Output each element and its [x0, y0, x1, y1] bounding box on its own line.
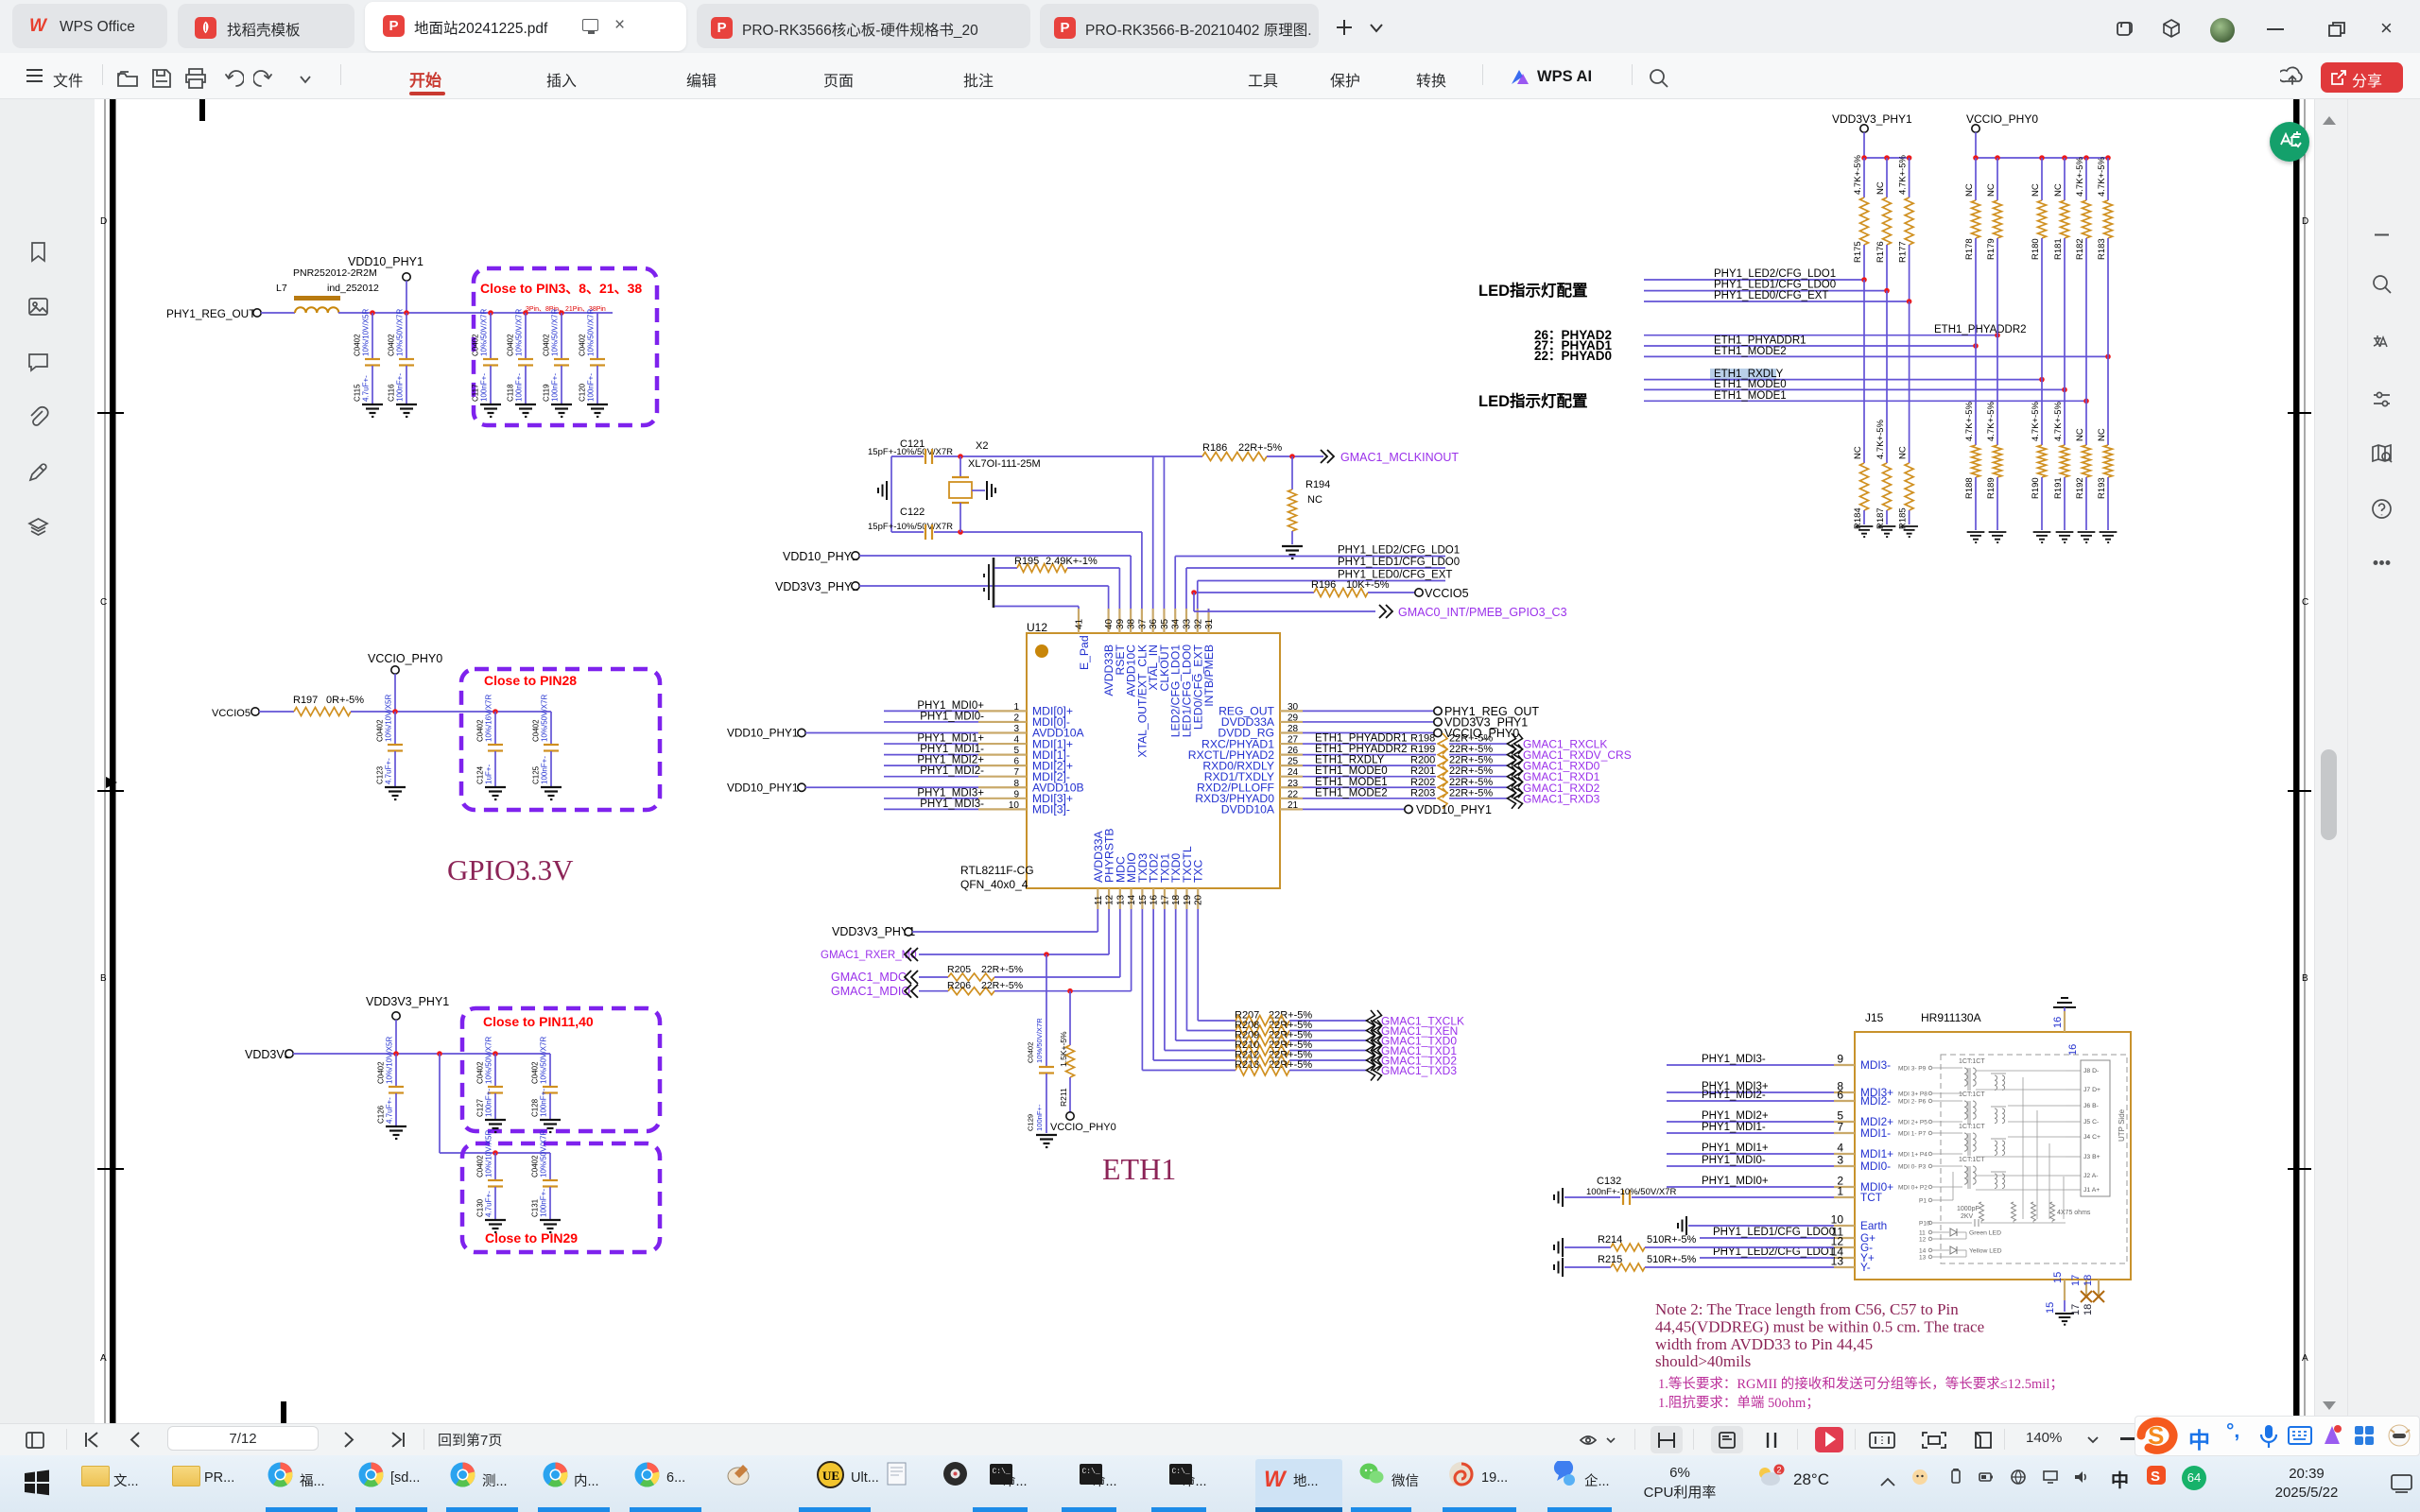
svg-text:10%/10V/X5R: 10%/10V/X5R [485, 1130, 493, 1177]
svg-text:should>40mils: should>40mils [1655, 1352, 1751, 1370]
svg-text:width from AVDD33 to Pin 44,45: width from AVDD33 to Pin 44,45 [1655, 1335, 1873, 1353]
svg-text:6: 6 [1837, 1089, 1843, 1102]
svg-text:NC: NC [1898, 446, 1909, 459]
svg-text:C0402: C0402 [354, 334, 362, 356]
svg-text:36: 36 [1149, 618, 1159, 629]
svg-text:NC: NC [2053, 183, 2064, 197]
svg-text:C0402: C0402 [376, 719, 385, 742]
svg-text:LED指示灯配置: LED指示灯配置 [1478, 391, 1588, 410]
svg-text:C0402: C0402 [531, 1061, 540, 1084]
svg-text:MDI2-: MDI2- [1860, 1094, 1891, 1108]
svg-text:4.7K+-5%: 4.7K+-5% [1875, 419, 1886, 459]
svg-text:100nF+-: 100nF+- [540, 1189, 548, 1217]
svg-text:R201: R201 [1410, 765, 1435, 777]
svg-text:NC: NC [1986, 183, 1996, 197]
svg-text:39: 39 [1115, 618, 1126, 629]
svg-text:R176: R176 [1875, 241, 1886, 263]
svg-text:100nF+-: 100nF+- [515, 373, 524, 402]
svg-text:Earth: Earth [1860, 1219, 1887, 1232]
svg-text:C132: C132 [1597, 1176, 1621, 1187]
svg-text:1.阻抗要求：单端 50ohm；: 1.阻抗要求：单端 50ohm； [1658, 1395, 1820, 1411]
svg-text:Green LED: Green LED [1969, 1230, 2001, 1237]
svg-text:Close to PIN29: Close to PIN29 [485, 1230, 578, 1246]
svg-text:4.7K+-5%: 4.7K+-5% [1964, 401, 1975, 441]
svg-text:PHY1_MDI0-: PHY1_MDI0- [920, 711, 984, 722]
svg-text:D: D [100, 216, 107, 227]
svg-text:MDI 3+ P8: MDI 3+ P8 [1898, 1091, 1927, 1098]
svg-text:J15: J15 [1865, 1011, 1884, 1024]
svg-text:B: B [2302, 973, 2308, 984]
svg-text:10: 10 [1009, 800, 1020, 811]
svg-text:J5 C-: J5 C- [2083, 1119, 2099, 1125]
svg-text:C0402: C0402 [579, 334, 587, 356]
svg-text:11: 11 [1094, 895, 1104, 905]
svg-text:R177: R177 [1898, 241, 1909, 263]
svg-text:D: D [2302, 216, 2308, 227]
svg-text:C125: C125 [532, 765, 541, 784]
svg-text:34: 34 [1171, 618, 1182, 629]
svg-text:ETH1_PHYADDR1: ETH1_PHYADDR1 [1315, 733, 1408, 745]
svg-text:C118: C118 [507, 384, 515, 402]
svg-text:19: 19 [1183, 894, 1193, 905]
svg-text:C128: C128 [531, 1098, 540, 1117]
svg-text:4.7K+-5%: 4.7K+-5% [2031, 401, 2041, 441]
svg-text:100nF+-: 100nF+- [541, 756, 549, 784]
svg-text:4.7K+-5%: 4.7K+-5% [2075, 156, 2085, 197]
svg-text:100nF+-: 100nF+- [551, 373, 560, 402]
svg-text:VCCIO_PHY0: VCCIO_PHY0 [1966, 112, 2038, 126]
svg-text:U12: U12 [1027, 621, 1047, 634]
svg-text:PHY1_REG_OUT: PHY1_REG_OUT [166, 307, 255, 320]
svg-text:20: 20 [1194, 894, 1204, 905]
svg-text:C: C [2302, 597, 2308, 608]
svg-text:1CT:1CT: 1CT:1CT [1959, 1124, 1985, 1130]
svg-text:PHY1_MDI0+: PHY1_MDI0+ [1702, 1176, 1769, 1187]
svg-text:4.7K+-5%: 4.7K+-5% [1898, 154, 1909, 195]
svg-text:ETH1_MODE1: ETH1_MODE1 [1315, 777, 1388, 788]
svg-text:Note 2: The Trace length from: Note 2: The Trace length from C56, C57 t… [1655, 1300, 1959, 1318]
svg-text:37: 37 [1137, 618, 1148, 629]
svg-text:R194: R194 [1305, 479, 1330, 490]
svg-text:R175: R175 [1853, 241, 1863, 263]
svg-text:VDD10_PHY1: VDD10_PHY1 [348, 255, 423, 268]
svg-text:12: 12 [1105, 894, 1115, 905]
svg-text:4.7uF+-: 4.7uF+- [362, 375, 371, 402]
svg-text:C0402: C0402 [1027, 1042, 1035, 1063]
svg-text:10%/50V/X7R: 10%/50V/X7R [587, 309, 596, 356]
svg-text:38: 38 [1127, 618, 1137, 629]
svg-text:10%/50V/X7R: 10%/50V/X7R [1035, 1018, 1044, 1063]
svg-text:R200: R200 [1410, 755, 1435, 766]
svg-text:VDD10_PHY1: VDD10_PHY1 [783, 550, 858, 563]
svg-text:10%/10V/X5R: 10%/10V/X5R [385, 695, 393, 742]
svg-text:10%/50V/X7R: 10%/50V/X7R [551, 309, 560, 356]
svg-text:MDI 1+ P4: MDI 1+ P4 [1898, 1152, 1927, 1159]
svg-text:10: 10 [1831, 1213, 1844, 1227]
svg-text:100nF+-: 100nF+- [485, 1089, 493, 1117]
svg-text:23: 23 [1288, 779, 1299, 789]
svg-text:4X75 ohms: 4X75 ohms [2057, 1210, 2091, 1216]
svg-text:ETH1_MODE2: ETH1_MODE2 [1714, 346, 1787, 357]
svg-text:VDD3V3_PHY1: VDD3V3_PHY1 [832, 925, 915, 938]
svg-text:4.7K+-5%: 4.7K+-5% [2053, 401, 2064, 441]
svg-text:C122: C122 [900, 507, 925, 518]
svg-text:ETH1_PHYADDR2: ETH1_PHYADDR2 [1934, 324, 2027, 335]
svg-text:MDI 2+ P5: MDI 2+ P5 [1898, 1120, 1927, 1126]
svg-text:100nF+-: 100nF+- [540, 1089, 548, 1117]
svg-text:J1 A+: J1 A+ [2083, 1187, 2100, 1194]
svg-text:PHY1_LED0/CFG_EXT: PHY1_LED0/CFG_EXT [1714, 290, 1828, 301]
svg-text:ETH1_MODE1: ETH1_MODE1 [1714, 390, 1787, 402]
svg-text:Y-: Y- [1860, 1261, 1871, 1274]
svg-text:GMAC0_INT/PMEB_GPIO3_C3: GMAC0_INT/PMEB_GPIO3_C3 [1398, 606, 1567, 619]
svg-text:VDD10_PHY1: VDD10_PHY1 [727, 727, 798, 740]
svg-text:0R+-5%: 0R+-5% [326, 695, 364, 706]
svg-text:C131: C131 [531, 1198, 540, 1217]
svg-text:44,45(VDDREG) must be within 0: 44,45(VDDREG) must be within 0.5 cm. The… [1655, 1317, 1984, 1335]
svg-text:R180: R180 [2031, 238, 2041, 260]
svg-text:VCCIO5: VCCIO5 [1425, 587, 1469, 600]
svg-text:ind_252012: ind_252012 [327, 283, 379, 294]
svg-text:MDI0-: MDI0- [1860, 1160, 1891, 1173]
svg-text:VDD3V3_PHY1: VDD3V3_PHY1 [366, 995, 449, 1008]
svg-text:22R+-5%: 22R+-5% [1238, 442, 1282, 454]
svg-text:LED指示灯配置: LED指示灯配置 [1478, 281, 1588, 300]
svg-text:510R+-5%: 510R+-5% [1647, 1254, 1697, 1265]
svg-text:MDI1+: MDI1+ [1860, 1147, 1893, 1160]
svg-text:31: 31 [1204, 618, 1215, 629]
svg-text:22R+-5%: 22R+-5% [1449, 765, 1493, 777]
svg-text:QFN_40x0_4: QFN_40x0_4 [960, 878, 1028, 891]
svg-text:10%/50V/X7R: 10%/50V/X7R [485, 1037, 493, 1084]
svg-text:17: 17 [1160, 894, 1170, 905]
svg-text:PHY1_MDI3-: PHY1_MDI3- [920, 799, 984, 810]
svg-text:VDD10_PHY1: VDD10_PHY1 [1416, 803, 1492, 816]
svg-text:ETH1_MODE2: ETH1_MODE2 [1315, 787, 1388, 799]
svg-text:10%/50V/X7R: 10%/50V/X7R [540, 1130, 548, 1177]
svg-text:ETH1: ETH1 [1102, 1152, 1176, 1186]
svg-text:17: 17 [2070, 1275, 2082, 1286]
svg-text:1: 1 [1013, 702, 1019, 713]
svg-text:VDD3V3_PHY1: VDD3V3_PHY1 [1832, 112, 1912, 126]
svg-text:R182: R182 [2075, 238, 2085, 260]
svg-text:C129: C129 [1027, 1114, 1035, 1131]
svg-text:C: C [100, 597, 107, 608]
svg-text:C0402: C0402 [476, 719, 485, 742]
svg-text:4: 4 [1013, 735, 1019, 746]
svg-text:22: 22 [1288, 789, 1299, 799]
svg-text:MDI 0- P3: MDI 0- P3 [1898, 1164, 1927, 1171]
svg-text:100nF+-: 100nF+- [396, 373, 405, 402]
svg-text:16: 16 [2052, 1017, 2064, 1028]
svg-text:MDI 2- P6: MDI 2- P6 [1898, 1099, 1927, 1106]
svg-text:14: 14 [1127, 894, 1137, 905]
svg-text:C124: C124 [476, 765, 485, 784]
svg-text:22R+-5%: 22R+-5% [1449, 744, 1493, 755]
svg-text:C115: C115 [354, 384, 362, 402]
svg-text:29: 29 [1288, 713, 1299, 723]
svg-text:R181: R181 [2053, 238, 2064, 260]
svg-text:10%/16V/X7R: 10%/16V/X7R [485, 695, 493, 742]
svg-text:J6 B-: J6 B- [2083, 1103, 2099, 1109]
svg-text:22R+-5%: 22R+-5% [1449, 733, 1493, 745]
svg-text:4: 4 [1837, 1142, 1843, 1155]
svg-text:ETH1_PHYADDR1: ETH1_PHYADDR1 [1714, 335, 1806, 347]
svg-text:C0402: C0402 [476, 1155, 485, 1177]
svg-text:9: 9 [1013, 789, 1019, 799]
svg-text:C0402: C0402 [472, 334, 480, 356]
svg-text:2KV: 2KV [1961, 1213, 1974, 1220]
svg-text:18: 18 [1171, 894, 1182, 905]
svg-text:41: 41 [1075, 618, 1085, 629]
svg-text:R211: R211 [1059, 1088, 1068, 1107]
svg-text:1uF+-: 1uF+- [485, 765, 493, 784]
svg-text:R189: R189 [1986, 477, 1996, 499]
svg-text:100nF+-: 100nF+- [1035, 1104, 1044, 1131]
svg-text:A: A [100, 1353, 107, 1364]
svg-text:C:\_: C:\_ [993, 1468, 1011, 1476]
svg-text:C:\_: C:\_ [1082, 1468, 1100, 1476]
svg-text:GMAC1_MDIO: GMAC1_MDIO [831, 985, 910, 998]
svg-text:J7 D+: J7 D+ [2083, 1087, 2100, 1093]
svg-text:10%/10V/X5R: 10%/10V/X5R [362, 309, 371, 356]
svg-text:C0402: C0402 [507, 334, 515, 356]
svg-text:VCCIO5: VCCIO5 [212, 708, 251, 719]
svg-text:XL7OI-111-25M: XL7OI-111-25M [968, 458, 1041, 470]
svg-text:15: 15 [2045, 1302, 2056, 1314]
svg-text:C0402: C0402 [476, 1061, 485, 1084]
svg-text:25: 25 [1288, 757, 1299, 767]
svg-text:R195: R195 [1014, 556, 1039, 567]
svg-text:22R+-5%: 22R+-5% [1449, 787, 1493, 799]
svg-text:15: 15 [1138, 894, 1149, 905]
svg-text:HR911130A: HR911130A [1921, 1011, 1981, 1024]
svg-text:22R+-5%: 22R+-5% [1449, 755, 1493, 766]
svg-text:R199: R199 [1410, 744, 1435, 755]
svg-text:17: 17 [2070, 1304, 2082, 1315]
svg-text:4.7K+-5%: 4.7K+-5% [1986, 401, 1996, 441]
svg-text:15pF+-10%/50V/X7R: 15pF+-10%/50V/X7R [868, 522, 953, 532]
svg-text:DVDD10A: DVDD10A [1221, 803, 1275, 816]
svg-text:MDI 3- P9: MDI 3- P9 [1898, 1066, 1927, 1073]
svg-text:C:\_: C:\_ [1172, 1468, 1190, 1476]
svg-text:R183: R183 [2097, 238, 2107, 260]
svg-text:VCCIO_PHY0: VCCIO_PHY0 [1050, 1122, 1116, 1133]
svg-text:GPIO3.3V: GPIO3.3V [447, 853, 574, 886]
svg-text:MDI[3]-: MDI[3]- [1032, 803, 1070, 816]
svg-text:S: S [2148, 1421, 2164, 1450]
svg-text:5: 5 [1013, 746, 1019, 756]
svg-text:R192: R192 [2075, 477, 2085, 499]
svg-text:10%/50V/X7R: 10%/50V/X7R [396, 309, 405, 356]
svg-text:S: S [2151, 1469, 2160, 1485]
svg-text:2: 2 [1013, 713, 1019, 723]
svg-text:C120: C120 [579, 383, 587, 402]
svg-text:10%/50V/X7R: 10%/50V/X7R [515, 309, 524, 356]
svg-text:PHY1_LED1/CFG_LDO0: PHY1_LED1/CFG_LDO0 [1713, 1227, 1835, 1238]
svg-text:PHY1_MDI3-: PHY1_MDI3- [1702, 1054, 1766, 1065]
svg-text:14: 14 [1919, 1248, 1927, 1255]
svg-text:13: 13 [1115, 894, 1126, 905]
svg-text:E_Pad: E_Pad [1078, 635, 1091, 670]
svg-text:ETH1_PHYADDR2: ETH1_PHYADDR2 [1315, 744, 1408, 755]
svg-text:11: 11 [1919, 1230, 1926, 1237]
svg-text:VDD3V3: VDD3V3 [245, 1048, 291, 1061]
svg-text:1CT:1CT: 1CT:1CT [1959, 1157, 1985, 1163]
svg-text:C0402: C0402 [543, 334, 551, 356]
svg-text:18: 18 [2083, 1304, 2094, 1315]
svg-text:10%/50V/X7R: 10%/50V/X7R [541, 695, 549, 742]
svg-text:8: 8 [1013, 779, 1019, 789]
svg-text:40: 40 [1104, 618, 1115, 629]
svg-text:UE: UE [822, 1469, 839, 1483]
svg-text:MDI 0+ P2: MDI 0+ P2 [1898, 1185, 1927, 1192]
svg-text:R188: R188 [1964, 477, 1975, 499]
svg-text:28: 28 [1288, 724, 1299, 734]
svg-text:R198: R198 [1410, 733, 1435, 745]
svg-text:100nF+-: 100nF+- [480, 373, 489, 402]
svg-text:Yellow LED: Yellow LED [1969, 1248, 2002, 1255]
svg-text:C0402: C0402 [532, 719, 541, 742]
svg-text:R196: R196 [1311, 579, 1336, 591]
svg-text:J2 A-: J2 A- [2083, 1173, 2099, 1179]
svg-text:10%/10V/X5R: 10%/10V/X5R [386, 1037, 394, 1084]
svg-text:1.5K+-5%: 1.5K+-5% [1059, 1031, 1068, 1067]
svg-text:Close to PIN3、8、21、38: Close to PIN3、8、21、38 [480, 281, 642, 296]
svg-text:32: 32 [1193, 618, 1203, 629]
svg-text:100nF+-: 100nF+- [587, 373, 596, 402]
svg-text:VDD3V3_PHY1: VDD3V3_PHY1 [775, 580, 858, 593]
svg-text:C126: C126 [377, 1105, 386, 1124]
svg-text:MDI1-: MDI1- [1860, 1126, 1891, 1140]
svg-text:1CT:1CT: 1CT:1CT [1959, 1058, 1985, 1065]
svg-text:22：PHYAD0: 22：PHYAD0 [1534, 349, 1612, 363]
svg-text:18: 18 [2083, 1275, 2094, 1286]
svg-text:PHY1_MDI1+: PHY1_MDI1+ [1702, 1143, 1769, 1154]
svg-text:TCT: TCT [1860, 1191, 1882, 1204]
svg-text:ETH1_MODE0: ETH1_MODE0 [1714, 379, 1787, 390]
svg-text:VCCIO_PHY0: VCCIO_PHY0 [368, 652, 442, 665]
svg-text:B: B [100, 973, 107, 984]
svg-text:R206: R206 [947, 980, 971, 991]
svg-text:26: 26 [1288, 746, 1299, 756]
svg-text:MDI3-: MDI3- [1860, 1058, 1891, 1072]
svg-text:10K+-5%: 10K+-5% [1346, 579, 1390, 591]
svg-text:24: 24 [1288, 767, 1299, 778]
svg-text:10%/50V/X7R: 10%/50V/X7R [480, 309, 489, 356]
svg-text:4.7uF+-: 4.7uF+- [485, 1191, 493, 1217]
svg-text:C123: C123 [376, 765, 385, 784]
svg-text:GMAC1_MDC: GMAC1_MDC [831, 971, 907, 984]
svg-text:VDD10_PHY1: VDD10_PHY1 [727, 781, 798, 794]
svg-text:4.7K+-5%: 4.7K+-5% [1853, 154, 1863, 195]
svg-text:GMAC1_TXD3: GMAC1_TXD3 [1381, 1064, 1457, 1077]
svg-text:R203: R203 [1410, 787, 1435, 799]
svg-text:PHY1_MDI1+: PHY1_MDI1+ [917, 733, 984, 745]
svg-text:R197: R197 [293, 695, 318, 706]
svg-text:TXC: TXC [1192, 859, 1205, 883]
svg-text:R178: R178 [1964, 238, 1975, 260]
svg-text:12: 12 [1919, 1237, 1927, 1244]
svg-text:J3 B+: J3 B+ [2083, 1154, 2100, 1160]
svg-text:35: 35 [1160, 618, 1170, 629]
svg-text:22R+-5%: 22R+-5% [981, 964, 1023, 975]
svg-text:R191: R191 [2053, 477, 2064, 499]
svg-text:Close to PIN11,40: Close to PIN11,40 [483, 1014, 594, 1029]
svg-text:7: 7 [1837, 1121, 1843, 1134]
svg-text:R214: R214 [1598, 1234, 1622, 1246]
svg-text:A: A [2302, 1353, 2308, 1364]
svg-text:PHY1_MDI2-: PHY1_MDI2- [1702, 1090, 1766, 1101]
svg-text:4.7uF+-: 4.7uF+- [386, 1097, 394, 1124]
svg-text:33: 33 [1182, 618, 1192, 629]
svg-text:7: 7 [1013, 767, 1019, 778]
svg-text:MDI 1- P7: MDI 1- P7 [1898, 1131, 1927, 1138]
svg-text:R186: R186 [1202, 442, 1227, 454]
svg-text:C119: C119 [543, 384, 551, 402]
svg-text:510R+-5%: 510R+-5% [1647, 1234, 1697, 1246]
svg-text:R215: R215 [1598, 1254, 1622, 1265]
svg-text:100nF+-10%/50V/X7R: 100nF+-10%/50V/X7R [1586, 1187, 1676, 1197]
svg-text:NC: NC [1853, 446, 1863, 459]
svg-text:16: 16 [2067, 1044, 2079, 1056]
svg-text:PHY1_LED1/CFG_LDO0: PHY1_LED1/CFG_LDO0 [1714, 280, 1836, 291]
svg-text:1000pF: 1000pF [1957, 1206, 1979, 1212]
svg-text:ETH1_MODE0: ETH1_MODE0 [1315, 765, 1388, 777]
svg-text:6: 6 [1013, 757, 1019, 767]
svg-text:16: 16 [1149, 894, 1160, 905]
svg-text:X2: X2 [976, 440, 988, 452]
svg-text:9: 9 [1837, 1053, 1843, 1066]
svg-text:1: 1 [1837, 1185, 1843, 1198]
svg-text:GMAC1_RXER_M0: GMAC1_RXER_M0 [821, 950, 917, 961]
svg-text:J4 C+: J4 C+ [2083, 1134, 2100, 1141]
svg-text:ETH1_RXDLY: ETH1_RXDLY [1315, 755, 1385, 766]
svg-text:1CT:1CT: 1CT:1CT [1959, 1091, 1985, 1098]
svg-text:C117: C117 [472, 384, 480, 402]
svg-text:22R+-5%: 22R+-5% [981, 980, 1023, 991]
svg-text:PHY1_LED1/CFG_LDO0: PHY1_LED1/CFG_LDO0 [1338, 557, 1460, 568]
svg-text:R205: R205 [947, 964, 971, 975]
svg-text:21: 21 [1288, 800, 1299, 811]
svg-text:L7: L7 [276, 283, 287, 294]
svg-text:NC: NC [1964, 183, 1975, 197]
svg-text:PHY1_MDI0-: PHY1_MDI0- [1702, 1155, 1766, 1166]
svg-text:NC: NC [2075, 428, 2085, 441]
svg-text:PHY1_MDI2+: PHY1_MDI2+ [1702, 1110, 1769, 1122]
svg-text:R193: R193 [2097, 477, 2107, 499]
svg-text:4.7K+-5%: 4.7K+-5% [2097, 156, 2107, 197]
svg-text:2.49K+-1%: 2.49K+-1% [1046, 556, 1098, 567]
svg-text:2: 2 [1777, 1466, 1782, 1475]
svg-text:RTL8211F-CG: RTL8211F-CG [960, 864, 1034, 877]
svg-text:PHY1_MDI3+: PHY1_MDI3+ [917, 787, 984, 799]
svg-text:27: 27 [1288, 735, 1299, 746]
svg-text:PHY1_MDI1-: PHY1_MDI1- [1702, 1122, 1766, 1133]
svg-text:R179: R179 [1986, 238, 1996, 260]
svg-text:UTP Side: UTP Side [2117, 1108, 2126, 1142]
svg-text:13: 13 [1919, 1255, 1927, 1262]
svg-text:J8 D-: J8 D- [2083, 1068, 2099, 1074]
svg-text:3: 3 [1837, 1154, 1843, 1167]
svg-text:R202: R202 [1410, 777, 1435, 788]
svg-text:R190: R190 [2031, 477, 2041, 499]
svg-text:NC: NC [2097, 428, 2107, 441]
svg-text:30: 30 [1288, 702, 1299, 713]
svg-text:NC: NC [1875, 181, 1886, 195]
svg-text:C0402: C0402 [531, 1155, 540, 1177]
svg-text:15: 15 [2052, 1272, 2064, 1283]
